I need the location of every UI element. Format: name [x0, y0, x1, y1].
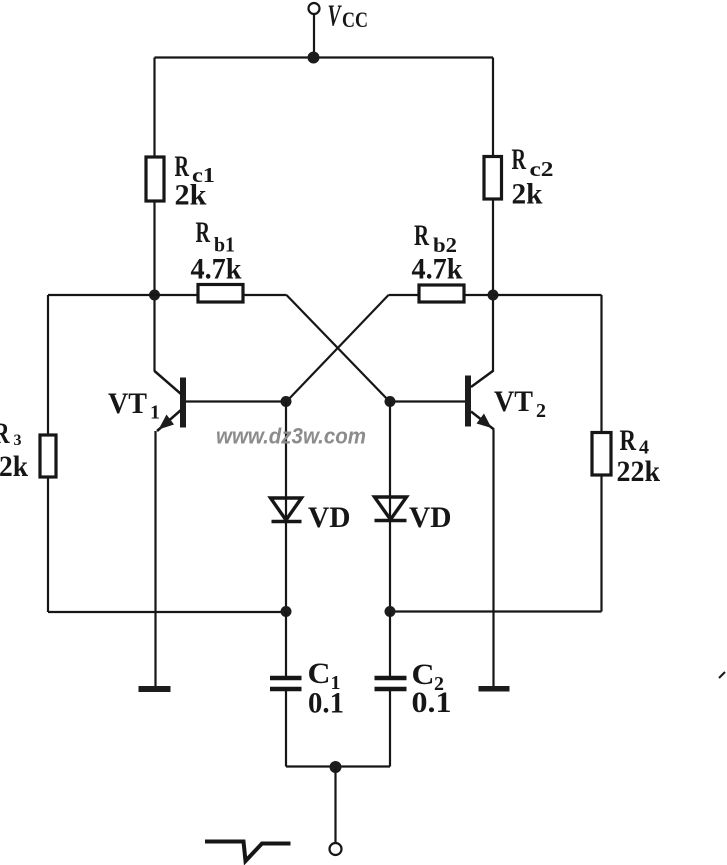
stray mark right edge — [719, 672, 725, 678]
svg-text:R: R — [620, 424, 637, 457]
capacitor C2 — [375, 678, 407, 689]
wire Rb2 right lead — [464, 294, 493, 296]
wire C2 top lead — [389, 612, 391, 677]
junction right base node — [488, 290, 499, 301]
resistor R3 — [40, 435, 56, 477]
label Rc2 2k — [512, 143, 554, 211]
svg-text:2k: 2k — [175, 179, 207, 212]
wire bottom horizontal — [286, 765, 390, 767]
label Rb1 4.7k — [191, 216, 242, 286]
wire C1 bottom lead — [285, 691, 287, 767]
wire right vertical upper — [492, 58, 494, 157]
svg-text:R: R — [414, 219, 429, 252]
ground right — [479, 686, 510, 692]
wire VD1 anode lead — [285, 402, 287, 612]
wire C2 bottom lead — [389, 691, 391, 767]
svg-text:R: R — [0, 417, 10, 450]
svg-text:www.dz3w.com: www.dz3w.com — [216, 424, 366, 449]
wire left stub — [48, 294, 155, 296]
ground left — [139, 686, 171, 692]
label C1 0.1 — [308, 657, 345, 720]
wire VT2 emitter vertical — [492, 430, 494, 687]
label Rb2 4.7k — [412, 219, 463, 286]
junction output node — [330, 761, 342, 773]
wire left vertical mid — [153, 201, 155, 372]
wire left vertical upper — [153, 58, 155, 158]
svg-text:22k: 22k — [617, 455, 661, 488]
node VT2 base — [385, 396, 396, 407]
label R4 22k — [617, 424, 661, 488]
wire left outer vertical lower — [47, 477, 49, 612]
label VT1 — [108, 387, 160, 424]
svg-text:2k: 2k — [0, 450, 28, 483]
resistor Rc2 — [484, 157, 502, 200]
wire VT2 base lead — [390, 400, 465, 402]
label Rc1 2k — [175, 150, 216, 212]
svg-text:3: 3 — [14, 432, 22, 449]
junction Vcc dot — [308, 52, 320, 64]
wire Rb2 left lead — [389, 294, 420, 296]
svg-text:VD: VD — [308, 501, 351, 534]
transistor VT2 — [465, 371, 494, 430]
svg-text:VD: VD — [409, 501, 452, 534]
svg-text:CC: CC — [342, 7, 368, 32]
resistor R4 — [592, 433, 611, 476]
svg-text:4.7k: 4.7k — [191, 253, 242, 286]
wire top rail — [155, 56, 494, 58]
svg-text:2k: 2k — [512, 178, 543, 211]
wire right outer vertical upper — [600, 295, 602, 433]
junction C2 node — [385, 606, 396, 617]
resistor Rb1 — [198, 285, 243, 303]
svg-text:V: V — [328, 0, 342, 33]
wire cross diagonal Rb2 to VT1 base — [287, 295, 389, 402]
wire VT1 emitter vertical — [154, 431, 156, 687]
svg-text:R: R — [196, 216, 211, 249]
node output terminal — [330, 843, 342, 855]
wire right outer vertical lower — [600, 475, 602, 612]
wire Rb1 left lead — [155, 294, 199, 296]
resistor Rb2 — [419, 285, 464, 302]
svg-text:1: 1 — [150, 402, 160, 424]
diode VD2 — [375, 497, 407, 521]
junction C1 node — [281, 606, 292, 617]
wire output stem — [334, 767, 336, 843]
svg-text:VT: VT — [108, 387, 147, 420]
wire C1 top lead — [285, 612, 287, 677]
diode VD1 — [271, 498, 302, 522]
node VT1 base — [281, 396, 292, 407]
svg-text:0.1: 0.1 — [308, 687, 344, 720]
svg-text:VT: VT — [494, 385, 533, 418]
wire cross diagonal Rb1 to VT2 base — [287, 295, 390, 402]
wire left feedback horizontal — [48, 611, 286, 613]
label VT2 — [494, 385, 546, 422]
label C2 0.1 — [412, 658, 452, 719]
resistor Rc1 — [146, 157, 164, 201]
svg-text:4.7k: 4.7k — [412, 253, 463, 286]
wire right vertical mid — [492, 199, 494, 372]
wire right feedback horizontal — [390, 610, 602, 612]
junction left base node — [149, 290, 160, 301]
wire right stub — [493, 294, 602, 296]
wire Rb1 right lead — [243, 294, 287, 296]
svg-text:0.1: 0.1 — [412, 686, 452, 719]
svg-text:R: R — [512, 143, 527, 176]
svg-text:2: 2 — [536, 400, 546, 422]
wire Vcc stem — [313, 14, 315, 58]
wire left outer vertical upper — [47, 295, 49, 435]
transistor VT1 — [155, 371, 187, 431]
label R3 2k — [0, 417, 28, 483]
node Vcc terminal — [309, 3, 320, 14]
wire VT1 base lead — [186, 400, 286, 402]
svg-text:C: C — [308, 657, 331, 690]
trigger pulse symbol — [205, 842, 291, 862]
capacitor C1 — [270, 678, 302, 689]
label Vcc — [328, 0, 369, 33]
wire VD2 anode lead — [389, 402, 391, 612]
